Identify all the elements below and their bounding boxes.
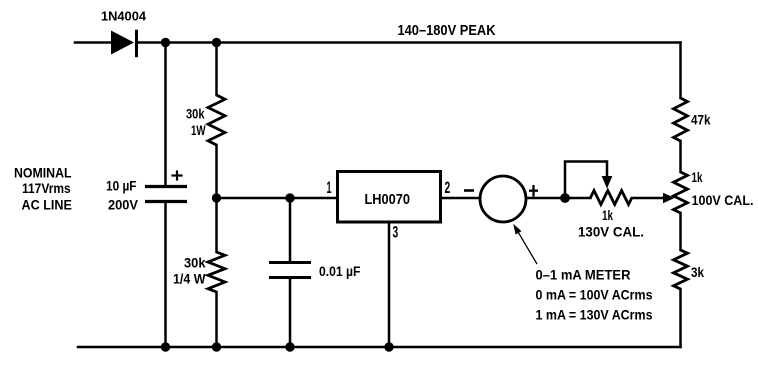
svg-text:3: 3 [393,223,399,242]
svg-text:10 µF: 10 µF [106,178,137,194]
wire pot wiper loop [565,162,607,198]
svg-text:1: 1 [327,178,332,197]
svg-text:100V CAL.: 100V CAL. [692,192,754,208]
svg-text:47k: 47k [691,112,711,128]
plus polarity mark C1 [171,170,182,180]
wire right rail segment above 47k [679,43,682,99]
svg-text:3k: 3k [691,264,704,280]
potentiometer R3 1k 130V CAL body [591,191,633,205]
diode D1 1N4004 [111,30,137,58]
wire 30k branch bottom [215,292,218,347]
resistor R4 47k [674,98,688,141]
svg-text:1k: 1k [602,207,613,223]
label 0-1 mA METER annotation [536,267,653,323]
wire capacitor branch lower [164,202,167,347]
svg-text:1N4004: 1N4004 [101,9,147,24]
label 30k 1W [186,106,206,139]
junction node pin1 30k [212,193,221,202]
wiper arrow R3 [602,176,613,189]
wire bottom rail [78,346,681,349]
junction node bottom 0.01uF [285,342,294,351]
wire right rail segment between 47k and 1k pot [679,141,682,172]
resistor R6 3k [674,250,688,289]
svg-text:0–1 mA METER: 0–1 mA METER [536,267,631,283]
svg-text:140–180V PEAK: 140–180V PEAK [398,22,496,39]
wire 30k branch middle [215,145,218,252]
annotation arrow to meter [513,224,537,264]
svg-text:AC LINE: AC LINE [22,197,72,213]
label 10uF 200V [106,178,139,213]
plus sign meter [529,185,538,197]
capacitor C1 10uF 200V [145,187,187,202]
wire LH0070 pin 2 to meter [441,197,480,200]
svg-text:NOMINAL: NOMINAL [14,165,72,181]
minus sign meter [464,189,474,192]
junction node top 30k [212,38,221,47]
meter M1 circle [480,176,526,222]
wire 0.01uF lower lead [289,278,292,347]
svg-text:30k: 30k [184,255,206,271]
svg-text:1k: 1k [692,169,703,185]
wire 0.01uF upper lead [289,198,292,262]
label 30k 1/4W [173,255,206,287]
wire capacitor branch upper [164,43,167,187]
wire LH0070 pin 3 to bottom rail [388,222,391,347]
svg-text:0 mA = 100V ACrms: 0 mA = 100V ACrms [536,287,653,303]
label 1k 130V CAL [578,207,644,240]
svg-text:117Vrms: 117Vrms [22,180,71,196]
capacitor C2 0.01uF [269,263,311,278]
svg-text:30k: 30k [186,106,205,122]
resistor R1 30k 1W [208,95,225,145]
potentiometer R5 1k 100V CAL on rail [674,172,688,213]
resistor R2 30k 1/4W [208,252,225,292]
svg-text:1/4 W: 1/4 W [173,271,206,287]
wire right rail segment between 1k pot and 3k [679,213,682,250]
label 1k 100V CAL [692,169,754,208]
arrow into 1k rail pot [663,193,675,203]
svg-text:LH0070: LH0070 [365,191,411,208]
svg-text:0.01 µF: 0.01 µF [319,263,361,279]
svg-text:1W: 1W [191,122,206,138]
wire top rail from diode to right corner [137,41,681,44]
svg-text:1 mA = 130V ACrms: 1 mA = 130V ACrms [536,307,653,323]
wire meter to wiper node [527,197,591,200]
junction node bottom pin3 [384,342,393,351]
wire 30k branch top [215,43,218,96]
svg-text:130V CAL.: 130V CAL. [578,224,644,240]
svg-text:2: 2 [445,178,451,197]
junction node pin1 0.01uF [285,193,294,202]
svg-text:200V: 200V [108,197,139,213]
wire pot output to arrow [632,197,664,200]
junction node wiper [560,193,570,203]
op-amp U1 LH0070 box [338,172,441,223]
wire top AC input left segment [75,41,112,44]
wire node to LH0070 pin 1 [217,197,338,200]
junction node top capacitor [161,38,170,47]
wire right rail segment below 3k [679,289,682,347]
junction node bottom 30k [212,342,221,351]
label NOMINAL 117Vrms AC LINE [14,165,72,213]
junction node bottom capacitor [161,342,170,351]
